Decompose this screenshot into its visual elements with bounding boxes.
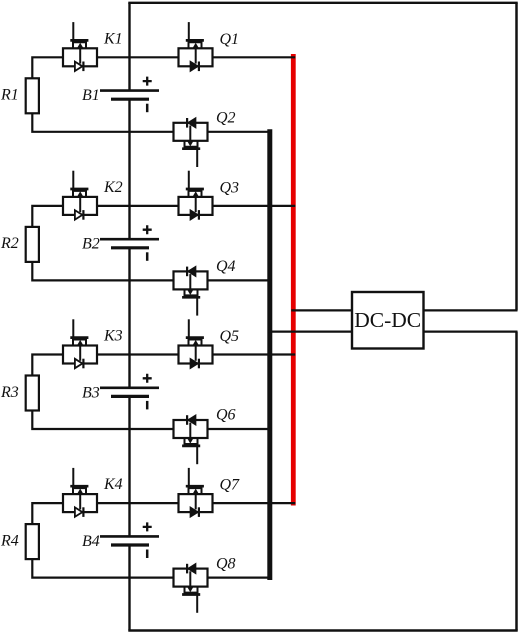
- MOSFET switch K2: [63, 171, 97, 220]
- svg-text:Q8: Q8: [216, 555, 236, 572]
- svg-text:Q3: Q3: [220, 179, 240, 196]
- svg-text:Q4: Q4: [216, 258, 236, 275]
- wire R1 bottom to stack bus: [32, 113, 129, 132]
- MOSFET Q1: [179, 22, 213, 71]
- MOSFET Q8 (inverted): [174, 564, 208, 613]
- wire K1 left to R1 top: [32, 57, 63, 78]
- MOSFET switch K3: [63, 319, 97, 368]
- label + polarity B3: [143, 374, 152, 383]
- wire stack bus to Q1: [130, 56, 179, 58]
- battery B4 long plate (+): [100, 535, 159, 538]
- wire right edge upper (DC-DC out+): [515, 3, 518, 311]
- wire stack bus to Q7: [130, 502, 179, 504]
- wire battery stack bus segment 1: [128, 99, 130, 239]
- wire DC-DC out- to right edge: [424, 331, 518, 333]
- wire Q4 to black bus: [208, 279, 272, 281]
- wire Q2 to black bus: [208, 131, 272, 133]
- svg-text:K3: K3: [103, 328, 123, 345]
- wire battery stack bus segment 4: [128, 545, 130, 631]
- label + polarity B4: [143, 522, 152, 531]
- svg-text:Q1: Q1: [220, 31, 240, 48]
- wire Q1 to red bus: [213, 56, 296, 58]
- MOSFET switch K4: [63, 468, 97, 517]
- resistor R4: [26, 524, 39, 559]
- svg-text:Q7: Q7: [220, 477, 241, 494]
- svg-text:R3: R3: [0, 384, 19, 401]
- wire K2 right to stack bus: [97, 205, 130, 207]
- svg-text:B3: B3: [82, 384, 100, 401]
- svg-text:K4: K4: [103, 476, 123, 493]
- wire K4 right to stack bus: [97, 502, 130, 504]
- battery B1 short plate (-): [111, 98, 149, 101]
- wire K3 right to stack bus: [97, 353, 130, 355]
- svg-text:DC-DC: DC-DC: [354, 308, 421, 332]
- wire Q6 to black bus: [208, 428, 272, 430]
- wire stack bus to Q5: [130, 353, 179, 355]
- wire right edge lower (DC-DC out-): [515, 332, 518, 631]
- svg-text:K1: K1: [103, 30, 123, 47]
- svg-text:Q6: Q6: [216, 407, 236, 424]
- MOSFET Q6 (inverted): [174, 415, 208, 464]
- label + polarity B1: [143, 77, 152, 86]
- wire DC-DC out+ to right edge: [424, 309, 518, 311]
- MOSFET Q5: [179, 319, 213, 368]
- MOSFET Q4 (inverted): [174, 267, 208, 316]
- wire Q3 to red bus: [213, 205, 296, 207]
- svg-text:B1: B1: [82, 87, 100, 104]
- label - polarity B1: [146, 104, 149, 113]
- wire pack bottom edge: [128, 629, 517, 632]
- svg-text:K2: K2: [103, 179, 123, 196]
- svg-text:R2: R2: [0, 235, 19, 252]
- svg-text:R1: R1: [0, 87, 19, 104]
- DC-DC converter U1 box: [352, 292, 424, 349]
- battery B4 short plate (-): [111, 543, 149, 546]
- MOSFET Q7: [179, 468, 213, 517]
- wire stack bus to Q3: [130, 205, 179, 207]
- svg-text:B2: B2: [82, 236, 100, 253]
- MOSFET Q3: [179, 171, 213, 220]
- wire pack top edge: [128, 2, 517, 4]
- wire red bus to DC-DC in+: [291, 309, 352, 311]
- label - polarity B2: [146, 252, 149, 260]
- wire R2 bottom to stack bus: [32, 262, 129, 281]
- node red bus (odd cells tap): [291, 54, 296, 506]
- wire Q5 to red bus: [213, 353, 296, 355]
- wire R4 bottom to stack bus: [32, 559, 129, 578]
- resistor R3: [26, 376, 39, 411]
- resistor R2: [26, 227, 39, 262]
- wire K1 right to stack bus: [97, 56, 130, 58]
- svg-text:B4: B4: [82, 533, 100, 550]
- node black bus (even cells tap): [267, 129, 272, 580]
- resistor R1: [26, 78, 39, 113]
- wire stack bus to Q4: [130, 279, 174, 281]
- wire K4 left to R4 top: [32, 503, 63, 524]
- wire stack bus to Q8: [130, 576, 174, 578]
- wire K2 left to R2 top: [32, 206, 63, 227]
- wire Q7 to red bus: [213, 502, 296, 504]
- label - polarity B3: [146, 401, 149, 410]
- label + polarity B2: [143, 225, 152, 234]
- wire K3 left to R3 top: [32, 355, 63, 376]
- battery B1 long plate (+): [100, 89, 159, 92]
- MOSFET switch K1: [63, 22, 97, 71]
- svg-text:R4: R4: [0, 532, 19, 549]
- wire black bus to DC-DC in-: [268, 331, 352, 333]
- svg-text:Q2: Q2: [216, 110, 236, 127]
- battery B2 short plate (-): [111, 246, 149, 249]
- wire stack bus to Q2: [130, 131, 174, 133]
- wire R3 bottom to stack bus: [32, 411, 129, 430]
- wire stack bus to Q6: [130, 428, 174, 430]
- wire battery stack bus segment 2: [128, 248, 130, 388]
- svg-text:Q5: Q5: [220, 328, 240, 345]
- wire battery stack bus segment 3: [128, 396, 130, 536]
- battery B2 long plate (+): [100, 238, 159, 241]
- MOSFET Q2 (inverted): [174, 118, 208, 167]
- wire battery stack bus segment 0: [128, 3, 130, 91]
- battery B3 long plate (+): [100, 386, 159, 389]
- label - polarity B4: [146, 550, 149, 559]
- wire Q8 to black bus: [208, 576, 272, 578]
- battery B3 short plate (-): [111, 395, 149, 398]
